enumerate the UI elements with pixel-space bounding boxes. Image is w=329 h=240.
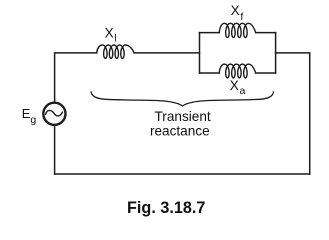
- wire: bottom return: [55, 173, 310, 175]
- wire: bottom branch left segment: [200, 72, 220, 74]
- svg-text:l: l: [114, 32, 116, 44]
- AC source E_g circle: [43, 103, 65, 125]
- svg-text:X: X: [230, 78, 239, 93]
- inductor X_a: [219, 64, 256, 78]
- parallel box right edge: [275, 33, 277, 73]
- svg-text:a: a: [240, 85, 246, 97]
- transient reactance brace: [91, 92, 274, 106]
- parallel box left edge: [199, 33, 201, 73]
- wire: top branch left segment: [200, 32, 220, 34]
- inductor X_f: [219, 23, 256, 37]
- svg-text:f: f: [240, 11, 243, 23]
- svg-text:g: g: [30, 114, 36, 126]
- svg-text:X: X: [231, 3, 240, 18]
- svg-text:X: X: [105, 25, 114, 40]
- wire: bottom branch right segment: [256, 72, 276, 74]
- wire: bottom-left corner up to source bottom: [54, 126, 56, 174]
- inductor X_l: [97, 45, 134, 58]
- wire: box right edge to top-right corner and down: [276, 53, 310, 174]
- svg-text:reactance: reactance: [150, 123, 210, 138]
- svg-text:Transient: Transient: [155, 109, 211, 124]
- wire: X_l to parallel box left edge: [134, 52, 199, 54]
- wire: source top up and right to X_l: [55, 53, 97, 102]
- svg-text:Fig. 3.18.7: Fig. 3.18.7: [127, 199, 205, 217]
- AC source sine symbol: [46, 110, 63, 116]
- wire: top branch right segment: [256, 32, 276, 34]
